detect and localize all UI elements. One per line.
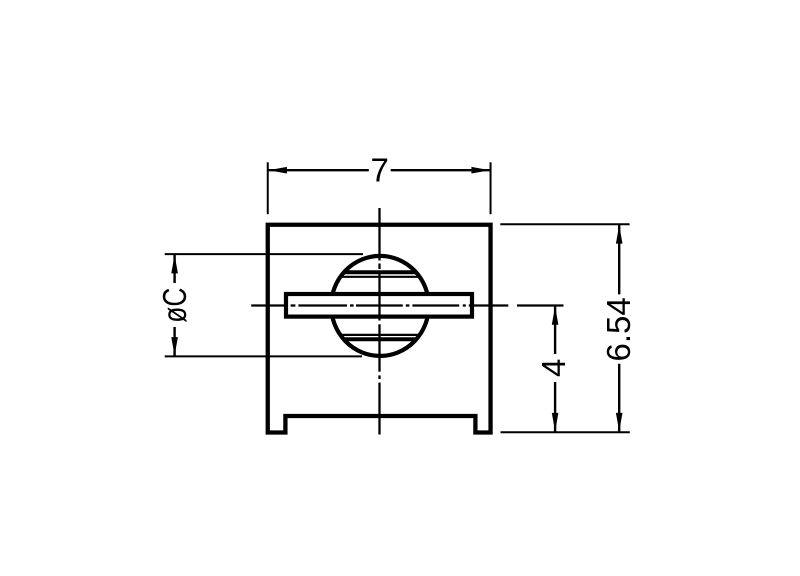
svg-text:7: 7 bbox=[371, 152, 389, 189]
svg-text:6.54: 6.54 bbox=[600, 297, 637, 361]
svg-text:øC: øC bbox=[156, 288, 193, 323]
svg-text:4: 4 bbox=[535, 359, 572, 377]
